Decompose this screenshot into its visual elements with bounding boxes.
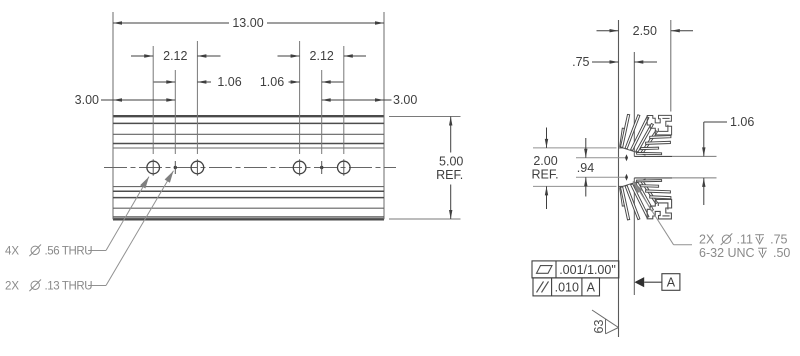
lower diagonal fins xyxy=(620,188,625,207)
section: slot faces and right extensions xyxy=(634,155,672,157)
dimension 13.00 xyxy=(113,22,229,24)
dimension 1.06 right xyxy=(289,81,300,83)
leader: 4X .56 THRU xyxy=(88,250,106,252)
svg-text:13.00: 13.00 xyxy=(232,16,263,30)
svg-text:63: 63 xyxy=(592,320,606,334)
plan view: extrusion feature lines xyxy=(113,122,384,124)
svg-text:1.06: 1.06 xyxy=(217,75,241,89)
svg-text:.94: .94 xyxy=(577,161,594,175)
svg-text:2.12: 2.12 xyxy=(310,49,334,63)
section: left face vertical line xyxy=(618,20,620,337)
upper diagonal fins xyxy=(620,128,625,147)
svg-text:2X: 2X xyxy=(699,233,715,247)
fin root ledge lower xyxy=(623,179,646,186)
dimension 2.00 REF xyxy=(533,147,617,149)
surface finish symbol 63 xyxy=(606,319,619,328)
dimension 2.12 left xyxy=(131,55,153,57)
svg-text:REF.: REF. xyxy=(436,168,463,182)
datum A flag xyxy=(635,277,645,287)
leader: 2X .11 tapped holes xyxy=(633,181,643,193)
svg-text:A: A xyxy=(587,281,596,295)
section: left face step lines xyxy=(619,147,624,149)
dimension 3.00 right xyxy=(322,99,392,101)
dimension 2.12 right xyxy=(278,55,300,57)
dimension 1.06 left xyxy=(154,81,176,83)
section: base right face / slot left face xyxy=(670,20,672,112)
svg-text:2.00: 2.00 xyxy=(533,154,557,168)
plan view: part outline xyxy=(113,115,384,117)
svg-text:3.00: 3.00 xyxy=(75,93,99,107)
dimension 3.00 left xyxy=(101,99,175,101)
small tick markers on .94 extension lines xyxy=(625,154,628,161)
svg-text:REF.: REF. xyxy=(531,168,558,182)
svg-text:.11: .11 xyxy=(737,233,753,247)
svg-text:6-32 UNC: 6-32 UNC xyxy=(699,246,755,260)
top H-channel feature xyxy=(647,115,671,134)
dimension 5.00 REF right side xyxy=(389,116,461,118)
svg-text:.75: .75 xyxy=(572,55,589,69)
dimension .94 xyxy=(576,157,625,159)
leader: 2X .13 THRU xyxy=(88,285,106,287)
2 small holes .13 THRU xyxy=(174,166,177,169)
upper horizontal fins xyxy=(650,136,671,139)
svg-text:.50: .50 xyxy=(773,246,790,260)
dimension 1.06 (slot) with elbow leader xyxy=(704,121,727,123)
svg-text:2.12: 2.12 xyxy=(163,49,187,63)
dimension 2.50 xyxy=(597,30,619,32)
svg-text:A: A xyxy=(667,276,676,290)
dimension .75 xyxy=(592,61,619,63)
fin root ledge upper xyxy=(623,148,646,155)
svg-text:.13 THRU: .13 THRU xyxy=(45,281,93,293)
svg-text:.001/1.00": .001/1.00" xyxy=(559,263,616,277)
svg-text:1.06: 1.06 xyxy=(730,115,754,129)
svg-text:5.00: 5.00 xyxy=(439,155,463,169)
horizontal centerline through holes xyxy=(104,167,396,169)
svg-text:.010: .010 xyxy=(555,281,579,295)
parallelism feature control frame xyxy=(533,278,600,296)
svg-text:.75: .75 xyxy=(770,233,787,247)
lower horizontal fins xyxy=(650,196,671,199)
svg-text:4X: 4X xyxy=(5,246,19,258)
bottom H-channel feature (mirrored) xyxy=(647,199,671,219)
svg-text:2X: 2X xyxy=(5,281,19,293)
hole extension lines (vertical, gray) xyxy=(152,46,154,154)
svg-text:3.00: 3.00 xyxy=(393,93,417,107)
svg-text:1.06: 1.06 xyxy=(260,75,284,89)
svg-text:.56 THRU: .56 THRU xyxy=(45,246,93,258)
svg-text:2.50: 2.50 xyxy=(633,24,657,38)
flatness feature control frame xyxy=(532,261,619,278)
4 large holes .56 THRU with center ticks xyxy=(147,161,160,174)
